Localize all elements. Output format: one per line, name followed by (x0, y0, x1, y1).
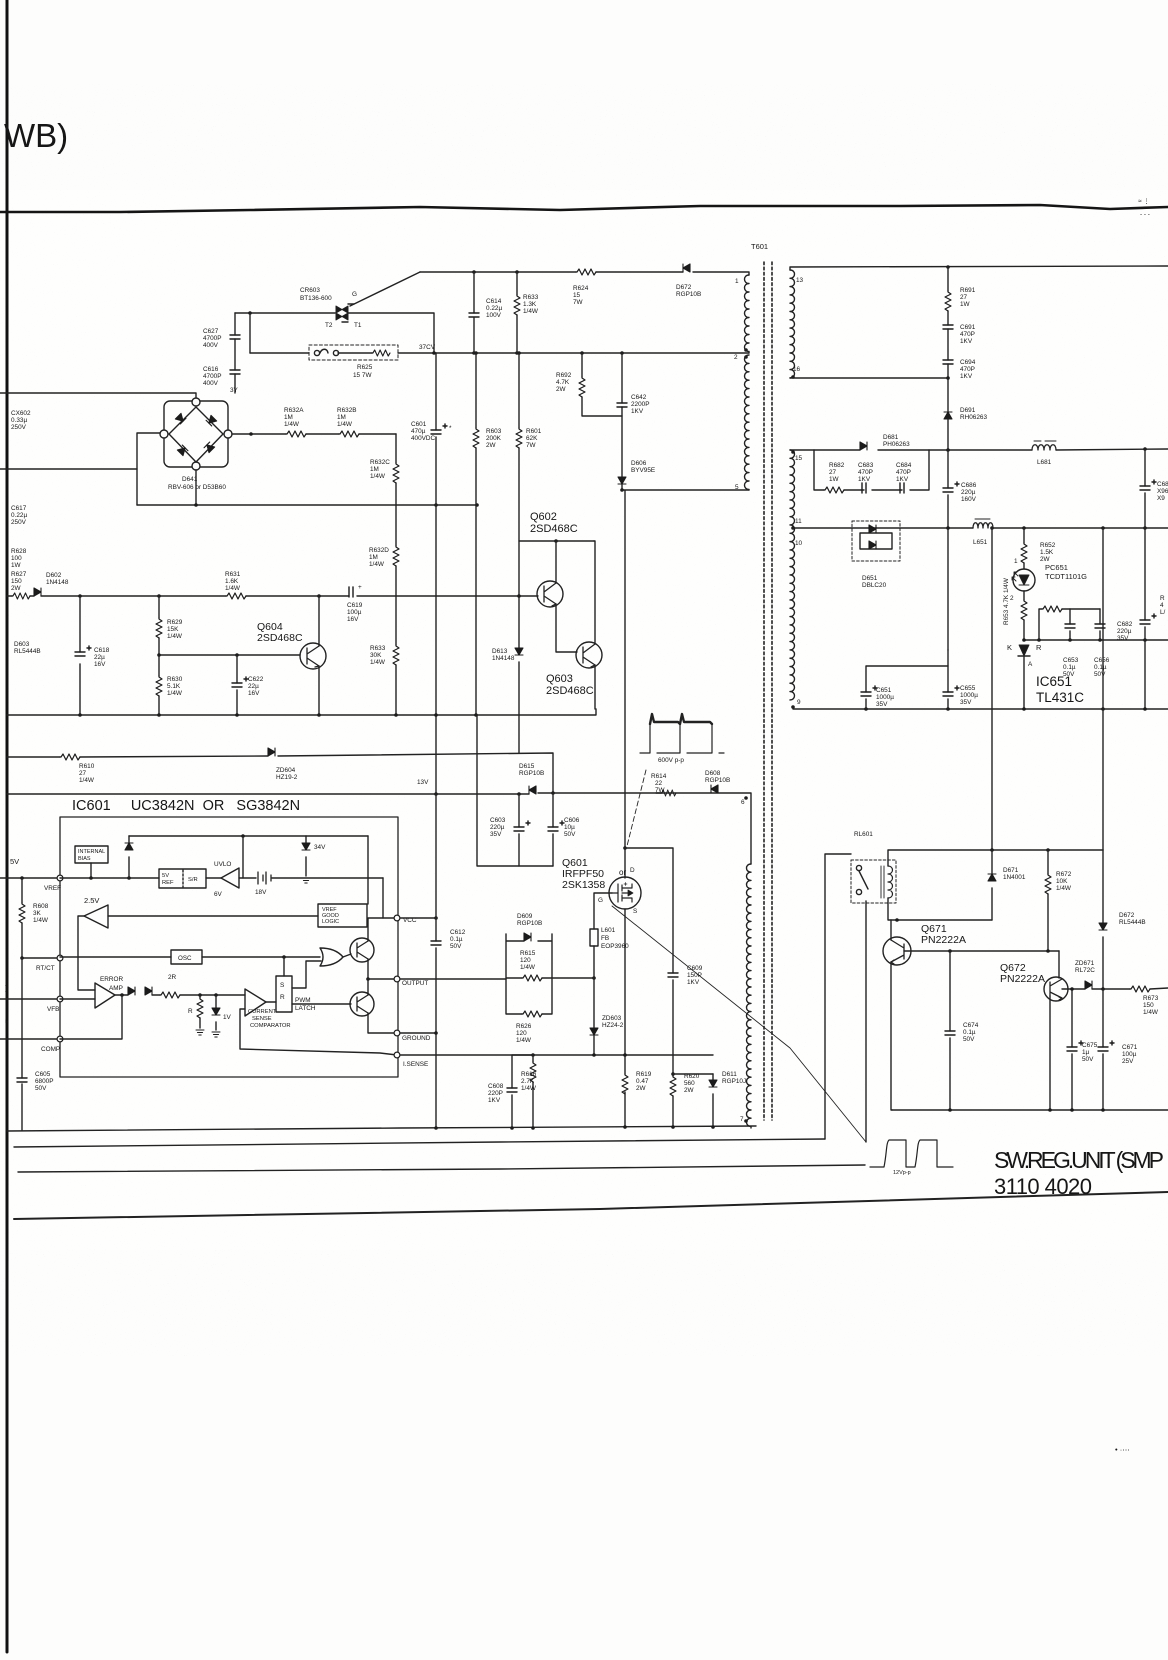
svg-text:IC601 UC3842N OR SG3842: IC601 UC3842N OR SG3842N (72, 798, 300, 814)
wire: primary small-signal return rail y715 (7, 709, 596, 715)
bridge rectifier D641 (160, 398, 232, 470)
wire: 13V rail y794 (7, 793, 751, 864)
wire: Q602 emitter to Q603 base (556, 604, 577, 652)
snubber loop D681/R682/C683/C684 (814, 450, 929, 490)
wire: D691 to output rail (947, 419, 949, 450)
diode D603 / capacitor C618 branch (79, 596, 81, 715)
junction (20, 876, 24, 880)
capacitor C653 (1069, 609, 1071, 640)
diode D651a (869, 525, 876, 533)
zener ZD604 (268, 748, 275, 756)
wire: to VCC transistor rail (383, 878, 394, 918)
resistor R627 (in-line from border) (7, 595, 34, 597)
wire: ISENSE line y1055 (400, 1054, 713, 1056)
svg-text:S: S (280, 982, 285, 989)
resistor R632A (286, 431, 306, 437)
pin RT/CT (57, 955, 63, 961)
svg-text:R: R (188, 1008, 193, 1015)
diode D672 (683, 264, 690, 272)
waveform 12Vp-p (bottom) (870, 1140, 953, 1167)
gate drive network (D609/R615/R626) (506, 934, 552, 1014)
wire: cap chain vertical x235 (234, 313, 236, 393)
wire: relay coil rail y850 (888, 850, 1103, 866)
capacitor C614 (473, 272, 475, 353)
wire: drain from pin5 (622, 490, 749, 878)
junctions 37CV rail (432, 351, 624, 355)
svg-text:K: K (1007, 643, 1012, 652)
wire: internal drop x243 (242, 836, 244, 878)
svg-text:D: D (630, 867, 635, 874)
wire: winding 13-16 lower return (790, 377, 948, 379)
diode (internal 2) (145, 987, 152, 995)
diode D651b (869, 541, 876, 549)
wire: relay contact 2 drop (865, 901, 867, 1142)
feedback divider resistor (1039, 609, 1100, 640)
wire: triac gate diagonal to top rail (350, 272, 420, 306)
resistor R691 (947, 267, 949, 325)
resistor R652 (1023, 528, 1025, 569)
wire: RT/CT stub (22, 957, 57, 959)
current sense comparator (245, 989, 276, 1016)
IC601 outline box (60, 817, 398, 1077)
wire: block top rail y541 (519, 540, 594, 542)
svg-text:- - -: - - - (1140, 211, 1150, 218)
internal bias box (75, 846, 108, 878)
svg-text:RT/CT: RT/CT (36, 965, 55, 972)
svg-text:RBV-606 or D53B60: RBV-606 or D53B60 (168, 484, 226, 491)
svg-text:T1: T1 (354, 322, 362, 329)
transistor (IC output upper) (350, 938, 374, 962)
transistor Q601 (MOSFET) (609, 877, 641, 909)
wire: bridge bottom to return (195, 470, 197, 505)
capacitor C691 (943, 325, 953, 329)
diode D613 (515, 648, 523, 655)
svg-text:R653 4.7K 1/4W: R653 4.7K 1/4W (1003, 577, 1010, 625)
resistor R633 (30K) (393, 645, 399, 665)
wire: relay coil bottom (888, 898, 992, 920)
capacitor C674 (949, 951, 951, 1110)
resistor R632B (339, 431, 359, 437)
resistor R616 (532, 1055, 534, 1128)
junctions 13V rail (434, 791, 555, 796)
capacitor C612 (435, 794, 437, 1128)
wire: bridge + output rail y434 (232, 433, 396, 435)
diode D602 (34, 588, 41, 596)
ferrite bead L601 (590, 929, 598, 946)
wire: secondary ground rail y709 (793, 707, 1168, 709)
transistor (IC output lower) (350, 992, 374, 1016)
resistor R673 (1130, 986, 1150, 992)
transistor Q602 (537, 581, 563, 607)
T601 secondary winding 13-16 (790, 270, 795, 378)
wire: chain to D691 (947, 364, 949, 412)
svg-text:AMP: AMP (109, 985, 123, 992)
wire: D606 to drain line (621, 484, 623, 490)
wire: rail y596 (41, 595, 538, 597)
capacitor C605 (21, 958, 23, 1130)
svg-text:1: 1 (735, 278, 739, 285)
wire: upper collector to VCC (368, 918, 383, 941)
rectifier D651 (dashed box, dual diode) (852, 521, 900, 561)
svg-text:ZD604HZ19-2: ZD604HZ19-2 (276, 767, 298, 781)
wire: relay contact feed (825, 854, 851, 1139)
transistor Q672 (1044, 977, 1068, 1001)
resistor R632D (393, 546, 399, 566)
diode D609 (524, 933, 531, 941)
wire: mid tap rail y528 (793, 527, 1168, 529)
resistor R692 (582, 353, 622, 416)
ground (under 34V zener) (302, 878, 310, 883)
wire: gate vertical (594, 893, 612, 1028)
svg-text:1V: 1V (223, 1014, 232, 1021)
svg-text:R: R (1036, 643, 1042, 652)
pin VFB (57, 996, 63, 1002)
bottom rule 1 (primary return rail) (7, 1126, 756, 1131)
resistor R615 (522, 975, 542, 981)
bottom rule 2 (relay contact line) (14, 1139, 825, 1147)
wire: lower emitter to GROUND (368, 1013, 394, 1033)
svg-text:SW.REG.UNIT (SMP: SW.REG.UNIT (SMP (994, 1147, 1164, 1173)
resistor R629 (158, 596, 160, 655)
capacitor C655 (947, 650, 949, 709)
svg-text:S/R: S/R (188, 877, 198, 883)
svg-text:I.SENSE: I.SENSE (403, 1061, 428, 1068)
wire: Q671 collector (890, 920, 892, 940)
diode D606 (618, 477, 626, 484)
capacitor C686 (947, 450, 949, 650)
wire: y313 line to triac (235, 312, 335, 314)
svg-text:12Vp-p: 12Vp-p (893, 1170, 911, 1176)
PWM latch box (276, 957, 292, 1012)
wire: gate line (552, 977, 594, 979)
zener 34V (305, 836, 307, 876)
svg-text:T601: T601 (751, 242, 768, 251)
svg-text:REF: REF (162, 880, 174, 886)
resistor R633 (1.3K) (516, 272, 518, 353)
pin GROUND (394, 1030, 400, 1036)
amp 2.5V (78, 896, 108, 990)
zener 1V (215, 995, 217, 1030)
svg-text:1: 1 (1014, 558, 1018, 565)
resistor R619 (622, 1074, 628, 1094)
wire: AC line upper (0, 393, 196, 399)
capacitor C671 (1102, 989, 1104, 1110)
svg-text:37CV: 37CV (419, 344, 436, 351)
waveform 600Vp-p (640, 714, 724, 753)
wire: secondary switch ground rail y1110 (892, 1109, 1168, 1111)
wire: Q604 collector (318, 596, 320, 646)
wire: Q672 base drop (1049, 996, 1051, 1110)
ground (under R) (196, 1030, 204, 1035)
junctions bottom rail (434, 1125, 715, 1130)
T601 aux winding 6-7 (747, 864, 752, 1128)
zener ZD603 (590, 1028, 598, 1035)
svg-text:6: 6 (741, 799, 745, 806)
svg-text:LOGIC: LOGIC (322, 919, 339, 925)
svg-text:OSC: OSC (178, 955, 192, 962)
capacitor C651 (866, 666, 948, 709)
wire: VREF internal rail (60, 877, 159, 879)
capacitor C608 (512, 1055, 533, 1128)
svg-text:G: G (598, 897, 603, 904)
diode D671 (991, 850, 993, 920)
pointer diagonal to bottom waveform (612, 906, 866, 1142)
transistor Q603 (576, 642, 602, 668)
transformer core (dashed) (764, 262, 772, 1120)
resistor R601 (518, 353, 520, 753)
capacitor C683 (862, 483, 866, 493)
svg-text:ZD671RL72C: ZD671RL72C (1075, 960, 1095, 974)
wire: latch to lower transistor base (292, 1003, 351, 1005)
capacitor C603 (518, 794, 520, 866)
resistor R614 (in 13V rail) (656, 792, 661, 794)
svg-text:L601: L601 (601, 927, 616, 934)
fusible resistor R625 (dashed box) (309, 345, 398, 360)
pin ISENSE (394, 1052, 400, 1058)
capacitor C694 (947, 329, 949, 360)
capacitor C622 (236, 655, 238, 715)
transistor Q671 (883, 937, 911, 965)
svg-text:2R: 2R (168, 974, 177, 981)
wire: Q603 emitter (594, 665, 596, 709)
svg-text:RL601: RL601 (854, 831, 873, 838)
svg-text:VFB: VFB (47, 1006, 59, 1013)
battery 18V (239, 872, 383, 896)
wire: comp feedback (60, 995, 122, 1039)
svg-text:15: 15 (795, 455, 803, 462)
wire: to current sense + (180, 994, 245, 996)
svg-text:): ) (5, 985, 7, 992)
resistor R632C (393, 463, 399, 483)
svg-text:T2: T2 (325, 322, 333, 329)
OR gate (320, 948, 351, 966)
resistor R620 (672, 1074, 674, 1128)
diode D681 (860, 442, 867, 450)
wire: VREF line to border (0, 877, 60, 879)
svg-text:• ·⋯: • ·⋯ (1115, 1445, 1130, 1454)
relay RL601 (851, 860, 896, 903)
wire: Q672 collector from base rail (1058, 951, 1060, 978)
inductor L681 (1032, 441, 1056, 450)
svg-text:VREF: VREF (44, 885, 61, 892)
svg-text:or: or (619, 868, 626, 877)
error amp (60, 976, 123, 1008)
capacitor C682 (1144, 528, 1146, 709)
svg-text:10: 10 (795, 540, 803, 547)
wire: 12V line down to relay section x992 (991, 528, 993, 850)
diode D611 (712, 1074, 714, 1128)
wire: Q671 emitter (891, 962, 892, 1110)
svg-text:3110 4020: 3110 4020 (994, 1174, 1092, 1199)
wire: COMP line to border (0, 1038, 57, 1040)
svg-text:+: + (358, 584, 362, 591)
resistor R672 (1047, 850, 1049, 951)
optocoupler PC651 (LED side) (1012, 569, 1035, 591)
resistor R624 (576, 269, 596, 275)
svg-text:13V: 13V (417, 779, 429, 786)
capacitor C601 (main bulk) (435, 353, 437, 794)
svg-text:L681: L681 (1037, 459, 1052, 466)
svg-text:C6170.22µ250V: C6170.22µ250V (11, 505, 27, 526)
svg-text:34V: 34V (314, 844, 326, 851)
diode D608 (711, 785, 718, 793)
junctions y715 (78, 713, 478, 717)
wire: triac T1 to x434 (348, 313, 434, 353)
diode (internal 1) (128, 987, 135, 995)
triac CR603 (336, 304, 354, 322)
pin OUTPUT (394, 976, 400, 982)
wire: Q672 emitter to zener (1062, 988, 1085, 990)
snubber capacitor C609 (625, 848, 673, 1074)
svg-text:7: 7 (740, 1116, 744, 1123)
wire: Q604 emitter (318, 666, 320, 715)
OSC box (60, 950, 320, 964)
wire: Q603 collector (594, 541, 595, 644)
wire: top primary rail y272 (420, 272, 749, 275)
svg-text:2: 2 (734, 354, 738, 361)
wire: output node y989 (1092, 988, 1130, 990)
wire: Q671 base line y951 (904, 950, 1059, 952)
wire: error amp output (115, 994, 128, 996)
resistor R (internal) (199, 995, 201, 1028)
capacitor C685 (right edge) (1144, 449, 1146, 528)
resistor R630 (158, 655, 160, 715)
wire: main secondary output rail y450 (790, 449, 1168, 450)
pin COMP (57, 1036, 63, 1042)
page border left (6, 0, 9, 1652)
resistor R610 (in line y757) (7, 753, 553, 793)
svg-text:2.5V: 2.5V (84, 896, 99, 905)
svg-text:GROUND: GROUND (402, 1035, 431, 1042)
svg-text:S: S (633, 908, 637, 915)
svg-text:R: R (280, 994, 285, 1001)
wire: GROUND pin to rail (400, 1032, 436, 1034)
junction (249, 432, 253, 436)
svg-text:C686220µ160V: C686220µ160V (961, 482, 977, 503)
capacitor C642 (621, 353, 623, 477)
svg-text:COMP: COMP (41, 1046, 60, 1053)
wire: R632 chain vertical x396 (395, 434, 397, 715)
pin VREF (57, 875, 63, 881)
resistor R653 (1023, 591, 1025, 640)
resistor R608 (21, 878, 23, 958)
capacitor C675 (1071, 989, 1073, 1110)
transistor Q604 (300, 643, 326, 669)
svg-text:600V p-p: 600V p-p (658, 757, 684, 764)
svg-text:16: 16 (793, 366, 801, 373)
svg-text:11: 11 (795, 518, 802, 525)
wire: source vertical (624, 909, 626, 1128)
ground (under 1V zener) (212, 1032, 220, 1037)
zener ZD671 (1085, 981, 1092, 989)
wire: secondary top rail y267 (790, 266, 1168, 270)
wire: emitter/collector to OUTPUT (367, 959, 369, 995)
5V REF / S-R box (159, 869, 206, 888)
wire: 37CV rail y353 (250, 352, 749, 354)
diode D615 (in rail) (529, 786, 536, 794)
capacitor C619 (series, in rail) (349, 587, 353, 597)
svg-text:A: A (1028, 661, 1033, 668)
diode (internal, to VREF) (128, 836, 130, 878)
resistor 2R (152, 994, 160, 996)
bottom border rule (sloped) (14, 1192, 1168, 1219)
junction (248, 311, 252, 315)
svg-text:≈ ⋮: ≈ ⋮ (1138, 198, 1150, 205)
svg-text:6V: 6V (214, 891, 223, 898)
wire: x250 drop to 37CV rail (249, 313, 251, 353)
top horizontal rule (0, 205, 1168, 212)
junctions on return rail (194, 503, 479, 507)
vref good logic box (108, 836, 368, 927)
resistor R626 (522, 1011, 542, 1017)
resistor R631 (226, 593, 246, 599)
svg-text:3Y: 3Y (230, 387, 239, 394)
svg-text:5V: 5V (162, 873, 169, 879)
svg-text:ERROR: ERROR (100, 976, 123, 983)
svg-text:WB): WB) (4, 117, 68, 154)
svg-text:9: 9 (797, 699, 801, 706)
capacitor C616 (230, 370, 240, 374)
wire: VFB line to border (0, 998, 57, 1000)
svg-text:L651: L651 (973, 539, 988, 546)
wire: DC return rail y505 (137, 504, 477, 506)
svg-text:C6140.22µ100V: C6140.22µ100V (486, 298, 502, 319)
wire: TL431 ref line y640 (1024, 639, 1168, 641)
svg-text:5: 5 (735, 484, 739, 491)
pointer (dash) to drain (627, 770, 646, 846)
svg-text:18V: 18V (255, 889, 267, 896)
svg-text:FB: FB (601, 935, 609, 942)
capacitor C656 (1099, 609, 1101, 640)
svg-text:UVLO: UVLO (214, 861, 231, 868)
bottom rule 3 (18, 1165, 865, 1172)
resistor R603 (475, 353, 477, 715)
capacitor C627 (230, 335, 240, 339)
svg-text:INTERNAL: INTERNAL (78, 849, 105, 855)
junctions y596 (78, 594, 521, 598)
inductor L651 (973, 519, 993, 528)
svg-text:ZD603HZ24-2: ZD603HZ24-2 (602, 1015, 624, 1029)
wire: Q602 collector (555, 541, 557, 583)
UVLO comparator (206, 861, 239, 898)
svg-text:2: 2 (1010, 595, 1014, 602)
T601 primary winding 2-5 (745, 355, 750, 490)
wire: OUTPUT pin to gate network (400, 978, 506, 980)
wire: AC line lower (0, 468, 137, 470)
diode D691 (944, 412, 952, 419)
svg-text:13: 13 (796, 277, 804, 284)
wire: C603/C606 return y866 (477, 715, 553, 866)
svg-text:BIAS: BIAS (78, 856, 91, 862)
wire: latch to OR gate (292, 961, 321, 988)
diode D672 (1102, 850, 1104, 989)
T601 secondary winding 15-11-10-9 (790, 450, 795, 700)
pin VCC (394, 915, 400, 921)
wire: VCC to bypass (400, 917, 436, 919)
wire: comparator minus input from ISENSE (240, 1009, 397, 1055)
svg-text:G: G (352, 291, 357, 298)
svg-text:OUTPUT: OUTPUT (402, 980, 428, 987)
junctions top rail (472, 270, 519, 274)
T601 primary winding 1-2 (745, 275, 750, 353)
shunt regulator IC651 (TL431) (1018, 645, 1030, 709)
svg-text:5V: 5V (10, 857, 19, 866)
wire: bridge left feed (137, 433, 161, 505)
internal top rail y836 (129, 835, 368, 837)
wire: aux line down x1103 (1102, 528, 1104, 850)
wire: base rail y655 (159, 654, 300, 656)
resistor R682 (824, 487, 844, 493)
